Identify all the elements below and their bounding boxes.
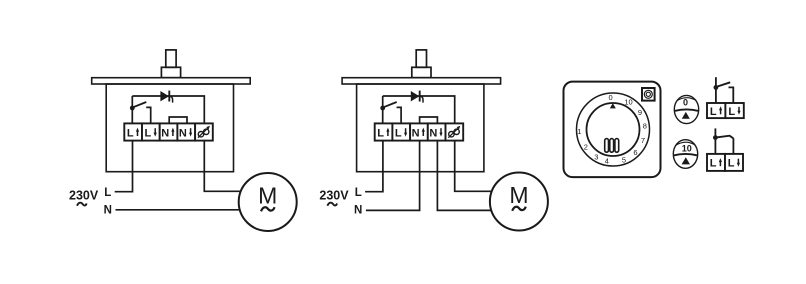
svg-text:230V: 230V: [69, 189, 99, 203]
knob stem (unit 2): [416, 50, 426, 67]
switch contact to terminal L-down (unit 2): [397, 107, 402, 123]
wire: internal riser from terminal L-up to switch (unit 1): [131, 96, 133, 123]
svg-text:M: M: [258, 183, 277, 209]
junction node (row 2 switch pivot): [713, 135, 718, 140]
svg-text:2: 2: [584, 142, 588, 151]
svg-text:N: N: [104, 205, 112, 217]
switch blade open (row 1): [716, 82, 730, 87]
dial scale number 9: [638, 108, 642, 117]
dial scale number 5: [622, 155, 626, 164]
diode D1 (unit 1): [160, 91, 172, 103]
bridge link N-up to N-down (unit 1): [169, 117, 187, 123]
dial scale number 0: [609, 93, 613, 102]
dial inner knob circle: [587, 103, 640, 156]
svg-text:L: L: [710, 106, 717, 118]
svg-text:4: 4: [605, 157, 609, 166]
knob side-view icon, position 0: [674, 95, 698, 123]
dial brand icon (top-right corner): [642, 88, 655, 101]
dial pointer triangle: [610, 103, 616, 108]
wire: supply L to terminal L-up (unit 1): [115, 141, 133, 192]
svg-text:5: 5: [622, 155, 626, 164]
svg-text:230V: 230V: [319, 189, 349, 203]
dial scale number 3: [594, 153, 598, 162]
wire: internal top run to fan terminal (unit 2): [383, 96, 455, 123]
svg-text:N: N: [179, 128, 187, 140]
switch contact (row 2): [732, 138, 734, 154]
label N (unit 1): [104, 205, 112, 217]
label 230V (unit 1): [69, 189, 99, 203]
junction node (row 1 switch pivot): [714, 85, 719, 90]
legend terminal L-down (row 2): [725, 154, 743, 171]
svg-text:L: L: [710, 158, 717, 170]
svg-text:N: N: [354, 205, 362, 217]
label L (unit 1): [104, 187, 111, 199]
svg-text:N: N: [161, 128, 169, 140]
label N (unit 2): [354, 205, 362, 217]
dial scale number 1: [577, 127, 581, 136]
svg-text:0: 0: [609, 93, 613, 102]
svg-text:1: 1: [577, 127, 581, 136]
enclosure box (unit 1): [106, 84, 233, 172]
svg-text:9: 9: [638, 108, 642, 117]
switch contact (row 1): [729, 87, 734, 103]
dial grip bars: [605, 139, 619, 153]
svg-text:L: L: [395, 128, 402, 140]
wire: internal riser from terminal L-up to switch (unit 2): [382, 96, 384, 123]
dial scale number 10: [624, 98, 632, 107]
terminal fan-output with fan symbol (unit 2): [446, 123, 464, 140]
junction node (unit 2 switch pivot): [380, 106, 385, 111]
legend terminal L-up (row 2): [707, 154, 725, 171]
label L (unit 2): [355, 187, 362, 199]
svg-text:10: 10: [624, 98, 632, 107]
terminal L-down (unit 2): [392, 123, 410, 140]
wire: fan terminal to motor (unit 2): [455, 141, 492, 192]
svg-text:N: N: [429, 128, 437, 140]
dial scale number 4: [605, 157, 609, 166]
svg-text:7: 7: [641, 136, 645, 145]
wire: fan terminal to motor (unit 1): [204, 141, 241, 192]
wire: terminal N-down to motor (unit 2): [437, 141, 491, 211]
dial outer ring: [577, 93, 650, 166]
terminal L-down (unit 1): [142, 123, 160, 140]
svg-text:N: N: [412, 128, 420, 140]
wire stub above switch (row 1): [715, 77, 717, 103]
mounting plate (unit 1): [92, 78, 251, 84]
svg-text:M: M: [509, 182, 528, 208]
svg-text:6: 6: [633, 148, 637, 157]
mounting plate (unit 2): [342, 78, 501, 84]
wire: supply L to terminal L-up (unit 2): [365, 141, 383, 192]
diode D2 (unit 2): [411, 91, 423, 103]
junction node (unit 1 switch pivot): [130, 106, 135, 111]
svg-text:L: L: [728, 158, 735, 170]
svg-text:L: L: [728, 106, 735, 118]
wire: supply N to motor (unit 1): [116, 209, 240, 211]
switch blade, open (unit 2): [383, 102, 397, 108]
dial scale number 6: [633, 148, 637, 157]
knob stem (unit 1): [166, 50, 176, 67]
motor M2 (unit 2): [490, 173, 548, 231]
motor M1 (unit 1): [239, 173, 297, 231]
svg-text:0: 0: [683, 97, 688, 107]
svg-text:10: 10: [682, 144, 692, 154]
wire: internal top run to fan terminal (unit 1): [132, 96, 204, 123]
terminal N-up (unit 1): [160, 123, 178, 140]
knob collar (unit 1): [161, 67, 180, 77]
dial scale number 7: [641, 136, 645, 145]
terminal N-down (unit 1): [177, 123, 195, 140]
svg-text:L: L: [377, 128, 384, 140]
wire: supply N to terminal N-up (unit 2): [366, 141, 420, 211]
tilde under 230V (unit 2): [327, 203, 337, 206]
svg-text:L: L: [355, 187, 362, 199]
tilde under 230V (unit 1): [77, 203, 87, 206]
knob side-view icon, position 10: [673, 140, 697, 169]
switch contact to terminal L-down (unit 1): [146, 107, 151, 123]
svg-text:L: L: [145, 128, 152, 140]
terminal N-down (unit 2): [428, 123, 446, 140]
svg-text:3: 3: [594, 153, 598, 162]
svg-text:L: L: [127, 128, 134, 140]
switch blade, open (unit 1): [132, 102, 146, 108]
wire stub above switch (row 2): [714, 128, 716, 154]
terminal N-up (unit 2): [410, 123, 428, 140]
knob collar (unit 2): [412, 67, 431, 77]
svg-text:8: 8: [643, 122, 647, 131]
dial scale number 8: [643, 122, 647, 131]
terminal L-up (unit 2): [375, 123, 393, 140]
enclosure box (unit 2): [357, 84, 484, 172]
switch blade closed (row 2): [715, 136, 733, 139]
legend terminal L-down (row 1): [725, 103, 743, 118]
svg-text:L: L: [104, 187, 111, 199]
terminal L-up (unit 1): [124, 123, 142, 140]
dial scale number 2: [584, 142, 588, 151]
dial faceplate: [564, 82, 661, 178]
terminal fan-output with fan symbol (unit 1): [195, 123, 213, 140]
label 230V (unit 2): [319, 189, 349, 203]
legend terminal L-up (row 1): [707, 103, 725, 118]
bridge link N-up to N-down (unit 2): [420, 117, 438, 123]
